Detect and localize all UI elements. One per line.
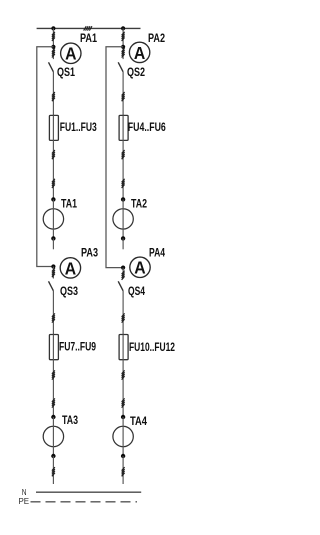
node: junction section 3 [51,264,55,268]
fuse FU4..FU6 [119,115,128,140]
svg-text:PA1: PA1 [80,32,97,45]
svg-text:PE: PE [19,496,30,506]
bus PE (protective earth, dashed) [31,501,138,503]
phase marks [52,370,55,379]
wire: QS3 to fuse [52,291,54,335]
bus N (neutral) [36,491,141,493]
op-amp-style meter: ammeter PA3 [60,258,80,279]
svg-text:PA4: PA4 [149,246,165,259]
svg-text:TA1: TA1 [61,197,77,210]
phase marks [122,370,125,379]
svg-text:QS1: QS1 [57,66,75,79]
svg-text:A: A [134,258,146,278]
phase marks [52,268,55,277]
wire: bypass riser 1 [37,47,54,267]
phase marks [122,150,125,159]
phase marks [52,92,55,101]
bus: top feeder busbar [37,27,141,29]
switch QS1 blade [49,62,54,72]
wire: TA4 down to N bus [122,456,124,484]
svg-text:PA2: PA2 [148,32,165,45]
svg-text:A: A [134,43,146,63]
phase marks [52,398,55,407]
switch QS4 blade [118,281,123,291]
svg-text:FU7..FU9: FU7..FU9 [59,341,96,354]
current transformer TA4 [113,415,133,458]
fuse FU7..FU9 [49,335,58,360]
current transformer TA1 [43,197,63,240]
current transformer TA3 [43,415,63,458]
wire: TA2 outgoing stub [122,238,124,249]
svg-text:TA4: TA4 [130,415,147,428]
svg-text:FU4..FU6: FU4..FU6 [128,121,166,134]
phase marks [52,467,55,476]
wire: feeder 1 drop from bus [52,28,54,59]
phase marks [122,467,125,476]
phase marks [52,48,55,57]
phase marks [122,398,125,407]
op-amp-style meter: ammeter PA4 [130,257,150,278]
fuse FU10..FU12 [119,335,128,360]
wire: fuse to TA3 [52,360,54,417]
node: branch to bypass riser 1 [51,45,55,49]
svg-text:A: A [65,44,77,64]
wire: fuse to TA1 [52,140,54,199]
op-amp-style meter: ammeter PA2 [129,42,149,63]
wire: fuse to TA4 [122,360,124,417]
svg-text:QS4: QS4 [128,285,145,298]
wire: QS2 to fuse [122,72,124,116]
node: bus tap feeder 1 [51,26,55,30]
node: branch to bypass riser 2 [121,45,125,49]
phase marks [52,150,55,159]
svg-text:QS3: QS3 [60,285,78,298]
svg-text:PA3: PA3 [81,246,98,259]
phase marks [122,32,125,41]
op-amp-style meter: ammeter PA1 [61,43,81,64]
wire: TA1 outgoing stub [52,238,54,249]
switch QS3 blade [49,281,54,291]
phase marks [122,179,125,188]
wire: bypass riser 2 [106,47,123,268]
svg-text:FU1..FU3: FU1..FU3 [60,121,97,134]
wire: TA3 down to N bus [52,456,54,484]
fuse FU1..FU3 [49,115,58,140]
wire: QS1 to fuse [52,72,54,116]
node: junction section 4 [121,266,125,270]
wire: feeder 2 drop from bus [122,28,124,59]
phase marks [52,179,55,188]
node: bus tap feeder 2 [121,26,125,30]
wire: fuse to TA2 [122,140,124,199]
switch QS2 blade [118,62,123,72]
svg-text:A: A [65,258,77,278]
phase marks on bus [84,26,92,30]
current transformer TA2 [113,197,133,240]
svg-text:FU10..FU12: FU10..FU12 [129,341,175,354]
phase marks [52,313,55,322]
svg-text:QS2: QS2 [127,66,145,79]
phase marks [122,271,125,280]
wire: QS4 to fuse [122,291,124,335]
phase marks [52,32,55,41]
phase marks [122,48,125,57]
phase marks [122,92,125,101]
wire: junction to QS3 [52,267,54,279]
wire: junction to QS4 [122,268,124,279]
phase marks [122,313,125,322]
svg-text:TA2: TA2 [131,197,147,210]
svg-text:TA3: TA3 [62,414,78,427]
